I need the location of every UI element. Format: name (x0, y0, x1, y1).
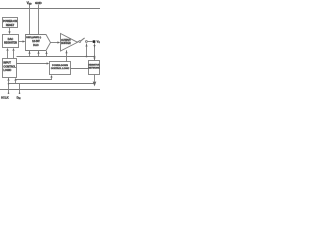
wire chip top boundary (0, 8, 100, 10)
wire DAC ref line right under pentagon (38, 51, 40, 57)
wire VDD pin line (29, 5, 31, 35)
wire GND pin line (38, 5, 40, 35)
svg-text:GND: GND (35, 1, 43, 5)
wire DAC output to buffer (51, 42, 58, 44)
wire resistor network to ground (94, 75, 96, 82)
node DIN pin end (19, 92, 21, 94)
arrow resistor network to ground (93, 82, 97, 87)
svg-text:VDD: VDD (27, 1, 33, 6)
wire ICL to PDCL upper (17, 63, 48, 65)
block Power-Down Control Logic box (50, 62, 71, 75)
svg-text:RESET: RESET (6, 24, 15, 27)
wire SCLK pin line (8, 81, 10, 93)
svg-text:DAC: DAC (8, 38, 14, 41)
svg-text:12-BIT: 12-BIT (32, 40, 40, 43)
arrow ref right into DAC bottom (37, 51, 39, 54)
op-amp U1 output buffer triangle (61, 34, 78, 52)
DAC D1 12-bit DAC pentagon (26, 35, 51, 51)
arrow bus into buffer bottom (65, 50, 67, 53)
arrow ICL into DAC register left (6, 48, 8, 51)
arrow DAC into buffer (57, 41, 60, 43)
wire DAC ref line left under pentagon (29, 51, 31, 57)
block DAC Register box (3, 35, 19, 48)
wire buffer tip to switch (78, 41, 79, 43)
node junction SCLK-bottom wire (8, 83, 10, 85)
wire ICL to DAC register right (13, 51, 15, 59)
node junction VOUT-bus (94, 56, 96, 58)
arrow lower wire into PDCL bottom (50, 75, 52, 78)
wire bus branch up to switch (86, 44, 88, 57)
wire PDCL to resistor network (71, 68, 89, 70)
pin VOUT square pad (93, 40, 96, 43)
arrow ref left into DAC bottom (28, 51, 30, 54)
wire bus branch up to DAC corner (46, 51, 48, 57)
wire bus branch to buffer and power-down logic (66, 50, 68, 61)
arrow VOUT line down (93, 45, 95, 48)
svg-text:SCLK: SCLK (1, 95, 9, 99)
svg-text:BUFFER: BUFFER (61, 43, 71, 45)
arrow SCLK into ICL (7, 78, 9, 81)
switch SW1 right contact (86, 41, 88, 43)
block Input Control Logic box (3, 59, 17, 78)
arrow ICL into DAC register right (12, 48, 14, 51)
arrow ICL into PDCL left edge (47, 62, 50, 64)
arrow DAC register into DAC (23, 40, 26, 42)
node SCLK pin end (8, 92, 10, 94)
wire POR to DAC register (9, 28, 11, 32)
arrow bus into DAC corner (45, 51, 47, 54)
wire bottom data wire (9, 83, 95, 85)
svg-text:VOUT: VOUT (97, 40, 100, 45)
wire DIN branch into ICL (15, 81, 17, 84)
wire SCLK arrow shaft (8, 78, 10, 81)
wire ICL to PDCL lower (16, 77, 52, 79)
svg-text:DAC: DAC (33, 44, 39, 47)
svg-text:POWER-DOWN: POWER-DOWN (52, 65, 68, 67)
svg-text:CONTROL: CONTROL (3, 65, 16, 68)
switch SW1 lever (81, 38, 85, 41)
block Resistor Network box (89, 61, 100, 75)
wire chip bottom boundary (0, 89, 100, 91)
svg-text:LOGIC: LOGIC (3, 69, 11, 72)
wire ICL to DAC register left (7, 51, 9, 59)
svg-text:RESISTOR: RESISTOR (88, 64, 100, 66)
svg-text:POWER-ON: POWER-ON (3, 20, 17, 23)
arrow bus into switch (85, 44, 87, 47)
arrow DIN into ICL (14, 78, 16, 81)
wire DIN pin line (19, 84, 21, 94)
block Power-On Reset box (3, 18, 18, 28)
arrow into resistor network top (93, 58, 95, 61)
switch SW1 left contact (79, 41, 81, 43)
svg-text:REF(+)/REF(–): REF(+)/REF(–) (26, 37, 41, 39)
svg-text:REGISTER: REGISTER (4, 41, 17, 44)
svg-text:NETWORK: NETWORK (88, 68, 100, 70)
wire VOUT node down to resistor network (94, 43, 96, 60)
svg-text:OUTPUT: OUTPUT (61, 40, 71, 42)
arrow POR into DAC register (8, 31, 10, 34)
wire power-down bus horizontal (17, 56, 95, 58)
wire switch to VOUT pin (87, 41, 92, 43)
node junction bus-switch (86, 56, 88, 58)
svg-text:INPUT: INPUT (3, 62, 11, 65)
svg-text:DIN: DIN (17, 95, 22, 100)
wire DAC register to DAC (19, 41, 23, 43)
svg-text:CONTROL LOGIC: CONTROL LOGIC (51, 68, 70, 70)
